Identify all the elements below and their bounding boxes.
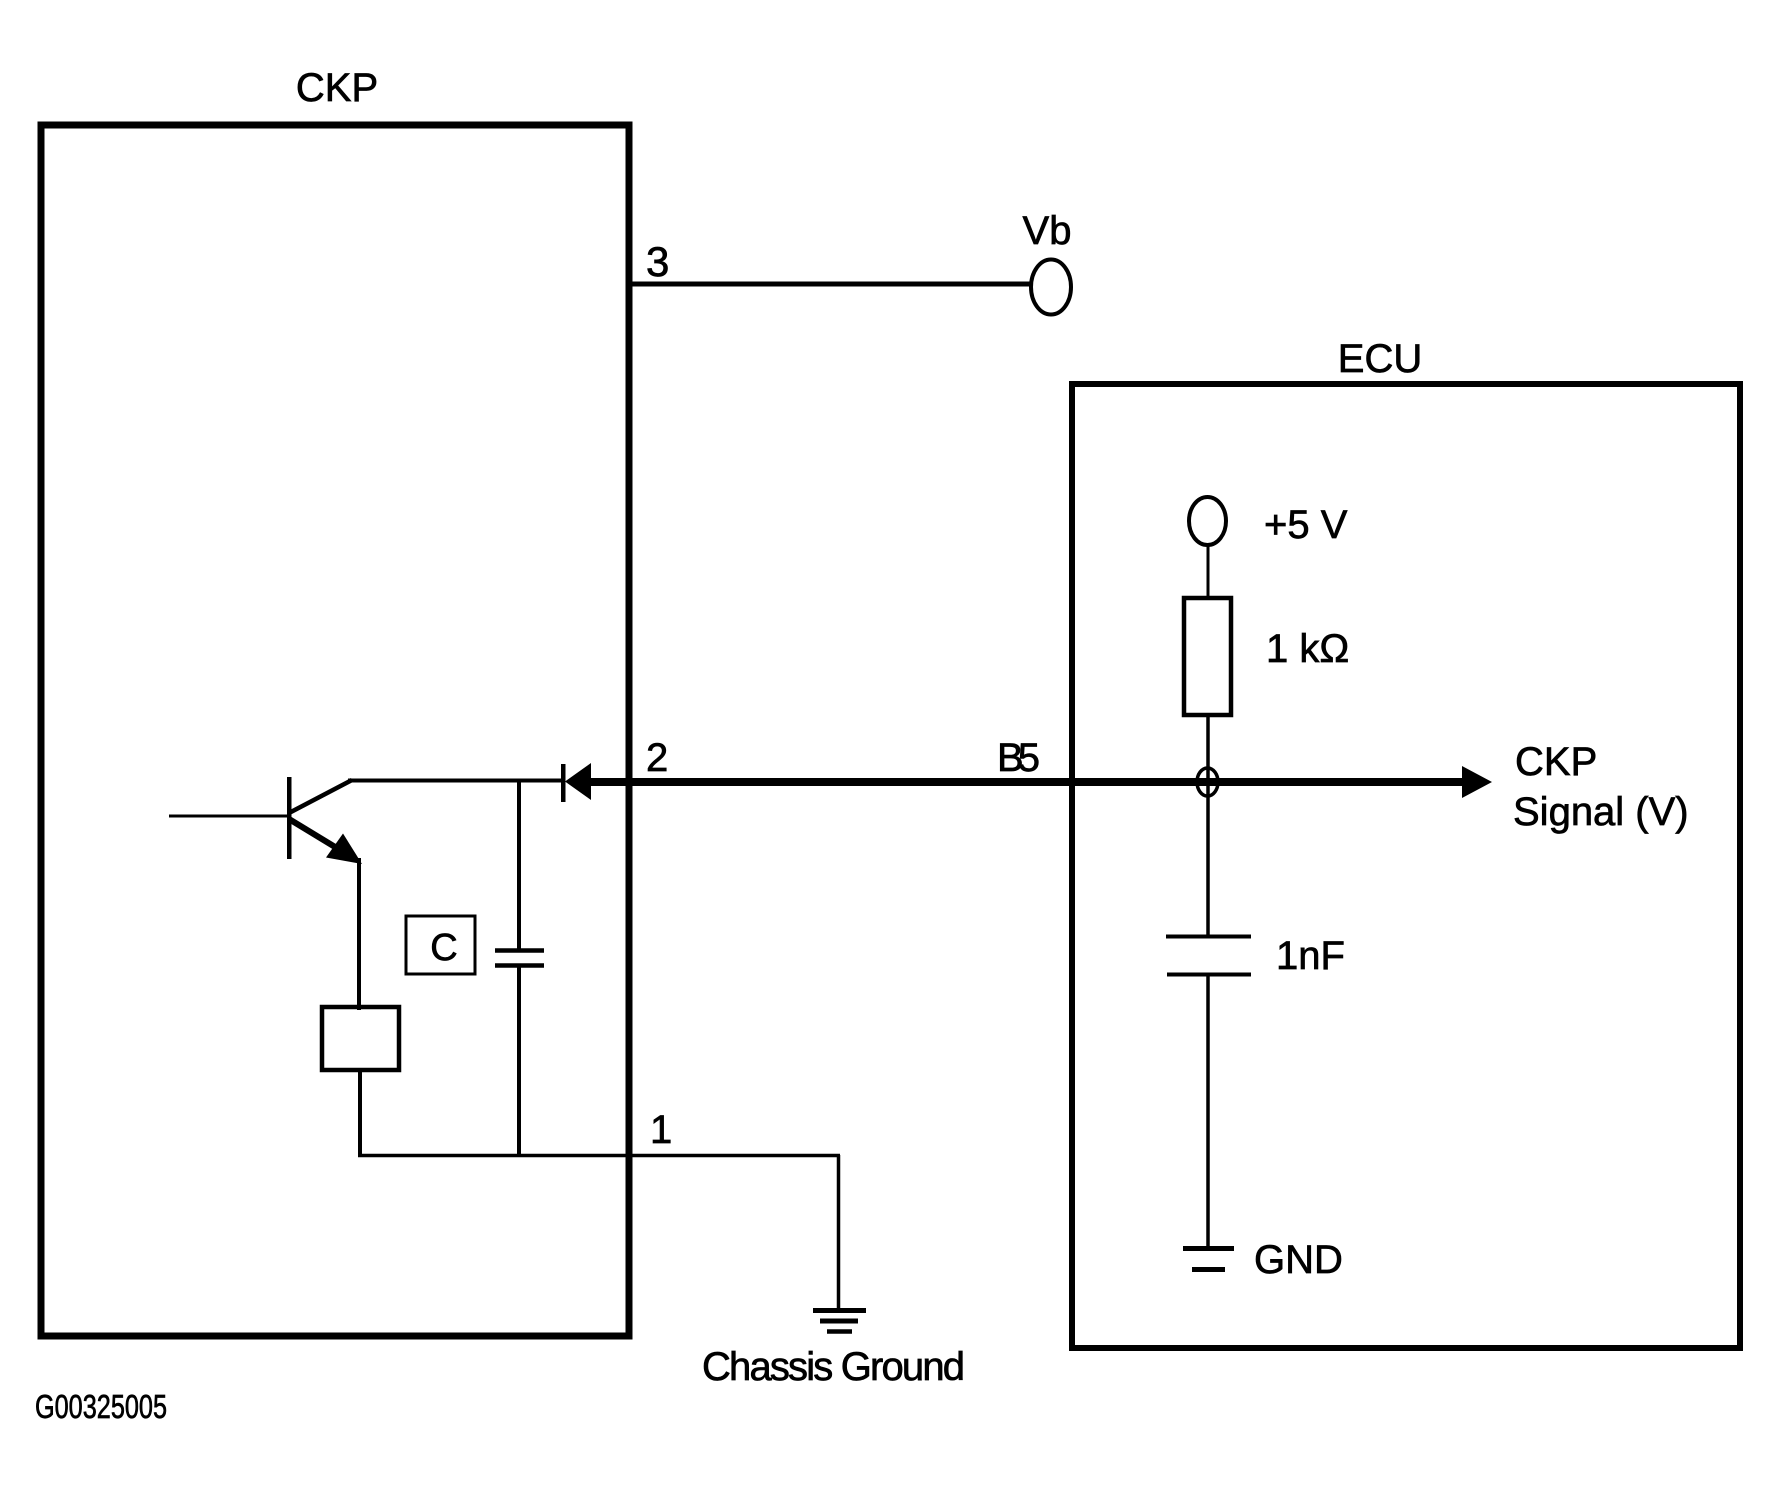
svg-text:1: 1 (650, 1108, 672, 1152)
svg-text:2: 2 (646, 736, 668, 780)
svg-text:ECU: ECU (1338, 337, 1422, 381)
svg-text:GND: GND (1254, 1238, 1343, 1282)
svg-text:CKP: CKP (296, 66, 378, 110)
svg-text:3: 3 (646, 238, 669, 285)
svg-text:CKP: CKP (1515, 740, 1597, 784)
svg-text:Signal (V): Signal (V) (1513, 790, 1689, 834)
svg-text:G00325005: G00325005 (35, 1388, 167, 1425)
svg-text:+5 V: +5 V (1264, 503, 1348, 547)
svg-text:Chassis Ground: Chassis Ground (702, 1345, 965, 1389)
svg-text:Vb: Vb (1023, 209, 1072, 253)
svg-text:1 kΩ: 1 kΩ (1266, 627, 1349, 671)
svg-text:C: C (430, 927, 457, 969)
svg-text:B5: B5 (997, 736, 1040, 780)
svg-text:1nF: 1nF (1276, 934, 1345, 978)
